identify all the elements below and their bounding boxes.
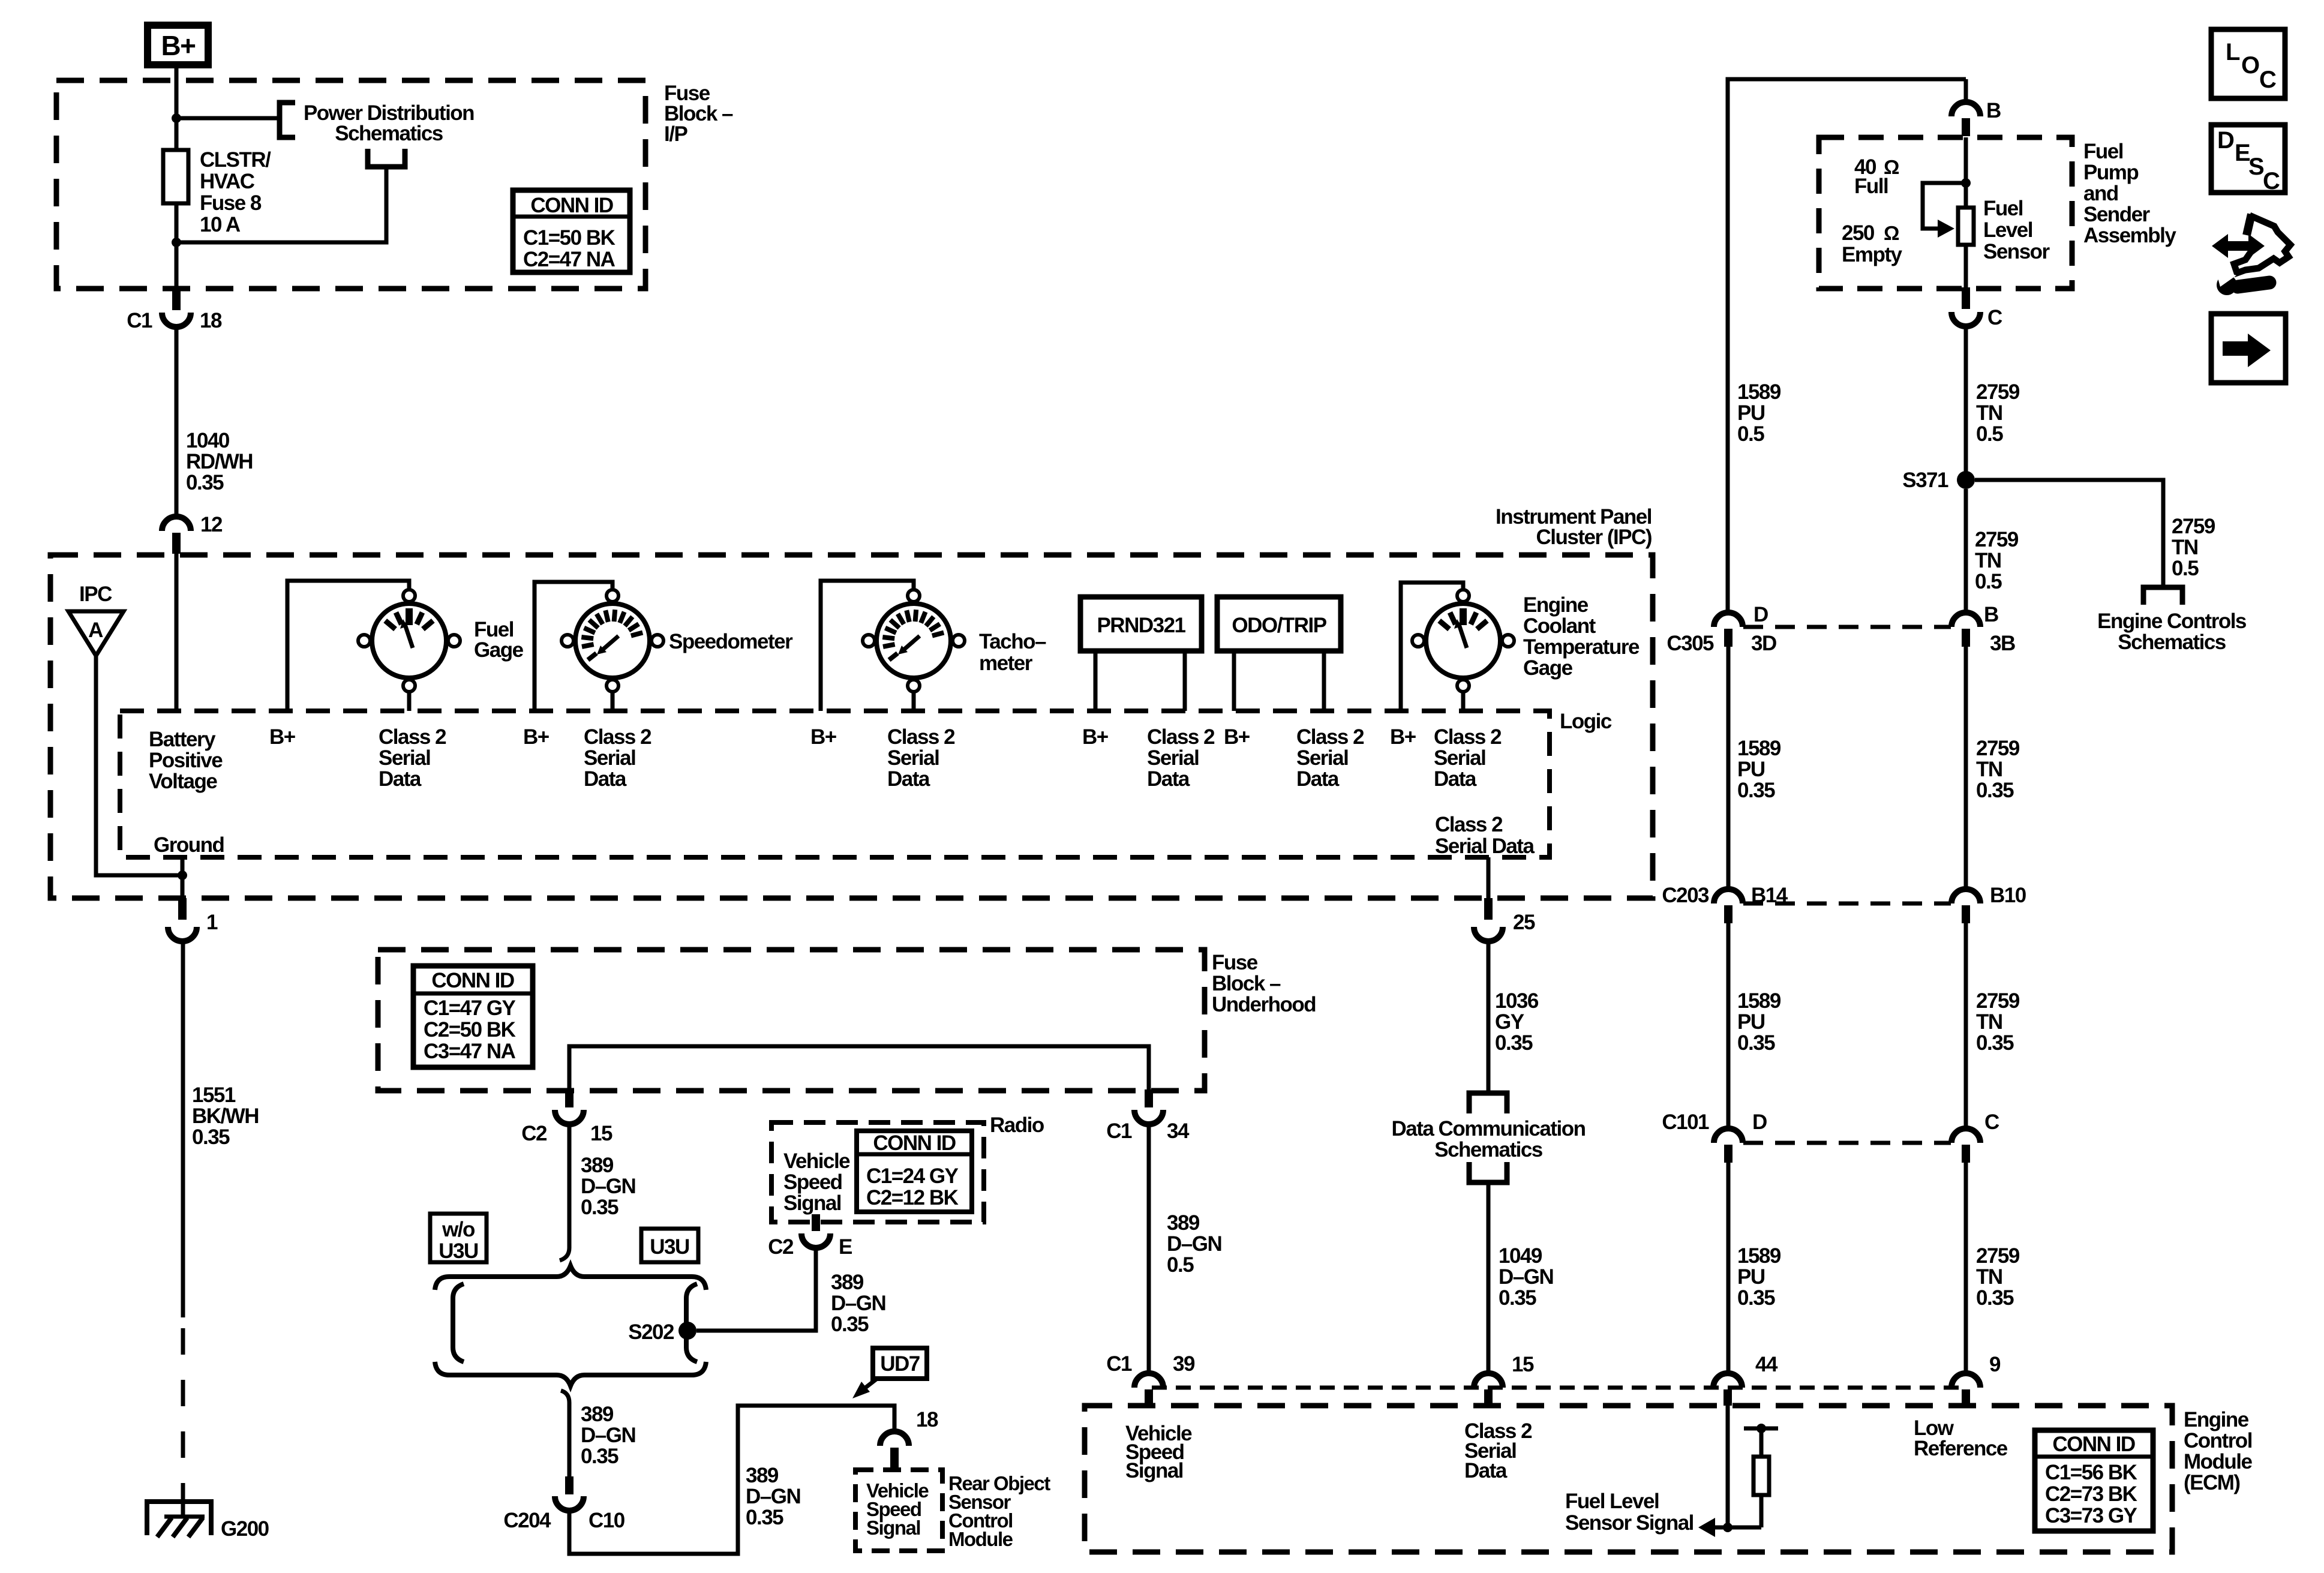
wire 1551 BK/WH to G200 xyxy=(181,941,185,1518)
svg-text:3B: 3B xyxy=(1990,632,2015,655)
wire tap to power distribution bracket xyxy=(176,116,280,121)
wire speedometer class 2 serial data xyxy=(611,692,615,711)
option box U3U xyxy=(641,1229,698,1262)
fuse F8 CLSTR/HVAC 10A xyxy=(163,150,188,203)
svg-text:25: 25 xyxy=(1513,911,1535,934)
svg-text:I/P: I/P xyxy=(664,122,687,146)
svg-text:GY: GY xyxy=(1495,1010,1524,1034)
svg-text:Fuse: Fuse xyxy=(1212,951,1258,974)
wire ground exit xyxy=(181,857,185,900)
svg-text:Engine Controls: Engine Controls xyxy=(2097,610,2247,633)
svg-text:Positive: Positive xyxy=(149,749,223,772)
wire 1589 PU harness top xyxy=(1728,79,1966,613)
fuel gage xyxy=(358,590,460,692)
wire speedometer B+ xyxy=(535,582,612,711)
svg-text:Underhood: Underhood xyxy=(1212,993,1316,1016)
svg-text:15: 15 xyxy=(590,1122,612,1145)
svg-text:S202: S202 xyxy=(628,1320,674,1344)
svg-text:C305: C305 xyxy=(1667,632,1714,655)
svg-text:0.35: 0.35 xyxy=(1495,1031,1533,1055)
connector C1 pin 18 fuse block xyxy=(162,289,191,327)
svg-text:0.35: 0.35 xyxy=(1976,1286,2014,1310)
connector dotted row ECM xyxy=(1152,1386,1966,1390)
svg-text:Fuel: Fuel xyxy=(1983,197,2023,220)
svg-text:1589: 1589 xyxy=(1737,380,1781,404)
label 1589 PU 0.35 (c) xyxy=(1737,1244,1781,1310)
svg-text:D: D xyxy=(1752,1110,1767,1134)
svg-text:Full: Full xyxy=(1854,175,1888,198)
svg-text:2759: 2759 xyxy=(1975,528,2019,551)
wire branch to engine controls xyxy=(1975,480,2163,587)
label Class 2 Serial Data speedometer xyxy=(584,725,651,791)
fuel level sensor resistor xyxy=(1958,208,1974,245)
svg-text:Coolant: Coolant xyxy=(1523,614,1596,638)
svg-text:2759: 2759 xyxy=(2172,515,2215,538)
svg-text:Serial: Serial xyxy=(887,746,939,770)
svg-text:2759: 2759 xyxy=(1976,380,2020,404)
wire underhood bus xyxy=(569,1046,1149,1091)
label 2759 TN 0.35 (c) xyxy=(1976,1244,2020,1310)
svg-text:1036: 1036 xyxy=(1495,989,1539,1013)
label 1049 D-GN 0.35 xyxy=(1499,1244,1553,1310)
svg-text:Sensor Signal: Sensor Signal xyxy=(1565,1511,1694,1535)
svg-text:34: 34 xyxy=(1167,1119,1190,1143)
label fuse CLSTR/HVAC Fuse 8 10 A xyxy=(200,148,271,236)
ground G200 xyxy=(147,1502,211,1537)
svg-text:B+: B+ xyxy=(810,725,837,749)
label Fuse Block - Underhood xyxy=(1212,951,1316,1016)
svg-text:w/o: w/o xyxy=(442,1218,475,1241)
label 250 ohm Empty xyxy=(1842,221,1903,266)
junction node fuse input xyxy=(172,238,181,247)
connector C204 pin C10 xyxy=(555,1476,584,1511)
svg-text:C10: C10 xyxy=(588,1509,625,1532)
connector C1 pin 12 IPC xyxy=(162,517,191,554)
wire end hook upper xyxy=(560,1248,569,1260)
wire end hook lower xyxy=(561,1391,569,1403)
label 1589 PU 0.35 (b) xyxy=(1737,989,1781,1055)
internal supply bar xyxy=(1744,1427,1778,1431)
svg-text:12: 12 xyxy=(200,513,223,536)
label 1589 PU 0.35 (a) xyxy=(1737,737,1781,802)
svg-text:B: B xyxy=(1986,99,2001,122)
wire ECT gage class 2 serial data xyxy=(1461,692,1466,711)
connector C2 pin 44 ECM xyxy=(1713,1373,1742,1406)
svg-text:Signal: Signal xyxy=(866,1517,920,1539)
svg-text:Class 2: Class 2 xyxy=(379,725,446,749)
svg-text:Gage: Gage xyxy=(474,638,524,662)
svg-text:0.5: 0.5 xyxy=(1976,422,2003,446)
label Low Reference xyxy=(1914,1416,2008,1460)
svg-text:Battery: Battery xyxy=(149,728,216,751)
svg-text:C203: C203 xyxy=(1662,884,1709,907)
svg-text:Control: Control xyxy=(2184,1429,2252,1452)
svg-text:0.5: 0.5 xyxy=(1737,422,1764,446)
svg-text:Schematics: Schematics xyxy=(1434,1138,1543,1161)
pullup resistor ECM xyxy=(1753,1457,1769,1495)
svg-text:TN: TN xyxy=(1975,549,2001,572)
svg-text:Fuel Level: Fuel Level xyxy=(1565,1490,1659,1513)
wire B+ to fuse to C1-18 xyxy=(175,68,179,289)
wire pullup to resistor xyxy=(1759,1428,1764,1457)
wire 1049 D-GN xyxy=(1487,1182,1491,1373)
svg-text:C2=12 BK: C2=12 BK xyxy=(866,1186,959,1209)
connector C101 pin D xyxy=(1714,1128,1743,1163)
connector pin 18 rear object xyxy=(880,1431,909,1469)
svg-text:Voltage: Voltage xyxy=(149,770,217,793)
svg-text:Data Communication: Data Communication xyxy=(1391,1117,1585,1140)
label Class 2 Serial Data fuel xyxy=(379,725,446,791)
connector C101 pin C xyxy=(1951,1128,1980,1163)
svg-text:UD7: UD7 xyxy=(880,1352,920,1376)
label 389 D-GN 0.35 (b) xyxy=(581,1403,635,1468)
wire 2759 TN to S371 xyxy=(1964,326,1968,474)
svg-text:Class 2: Class 2 xyxy=(1435,813,1503,836)
wire 2759 TN segment 2 xyxy=(1964,647,1968,889)
svg-text:TN: TN xyxy=(1976,1265,2002,1289)
wire 2759 TN segment 4 xyxy=(1964,1163,1968,1373)
svg-text:B: B xyxy=(1984,603,1998,626)
svg-text:(ECM): (ECM) xyxy=(2184,1471,2240,1494)
svg-text:CLSTR/: CLSTR/ xyxy=(200,148,271,172)
svg-text:0.35: 0.35 xyxy=(192,1125,230,1149)
svg-text:D: D xyxy=(1753,603,1768,626)
option box w/o U3U xyxy=(430,1214,487,1263)
wire ODO/TRIP B+ leg xyxy=(1232,651,1236,711)
wire fuel level sensor signal arrow xyxy=(1698,1518,1761,1537)
junction node power distribution tap xyxy=(172,113,181,123)
svg-text:Module: Module xyxy=(948,1528,1013,1550)
svg-text:389: 389 xyxy=(831,1271,864,1294)
label Class 2 Serial Data tachometer xyxy=(887,725,955,791)
svg-text:39: 39 xyxy=(1173,1352,1195,1376)
label Vehicle Speed Signal rear object xyxy=(866,1479,929,1539)
CONN ID table underhood xyxy=(413,966,533,1067)
svg-text:Logic: Logic xyxy=(1560,710,1612,733)
label 2759 TN 0.5 (branch) xyxy=(2172,515,2215,580)
svg-text:Engine: Engine xyxy=(2184,1408,2249,1431)
label Class 2 Serial Data ECT xyxy=(1434,725,1502,791)
svg-text:C1: C1 xyxy=(1106,1119,1132,1143)
svg-text:Data: Data xyxy=(379,767,422,791)
tachometer xyxy=(863,590,965,692)
svg-text:C2=50 BK: C2=50 BK xyxy=(424,1018,516,1041)
svg-text:Data: Data xyxy=(887,767,930,791)
label Fuel Pump and Sender Assembly xyxy=(2083,140,2176,247)
wire battery positive into logic xyxy=(175,553,179,711)
svg-text:CONN ID: CONN ID xyxy=(431,969,514,992)
junction node fuel level sensor signal xyxy=(1723,1523,1733,1532)
svg-text:D–GN: D–GN xyxy=(581,1175,635,1198)
label 2759 TN 0.35 (a) xyxy=(1976,737,2020,802)
svg-text:C2: C2 xyxy=(521,1122,547,1145)
svg-text:Gage: Gage xyxy=(1523,656,1573,680)
svg-text:Reference: Reference xyxy=(1914,1437,2008,1460)
label Engine Control Module (ECM) xyxy=(2184,1408,2253,1494)
svg-text:A: A xyxy=(88,619,103,642)
rear object sensor control module enclosure xyxy=(855,1470,942,1551)
label Class 2 Serial Data PRND321 xyxy=(1147,725,1215,791)
svg-text:2759: 2759 xyxy=(1976,737,2020,760)
connector B fuel pump xyxy=(1951,102,1980,136)
label 1036 GY 0.35 xyxy=(1495,989,1539,1055)
svg-text:Assembly: Assembly xyxy=(2083,224,2176,247)
svg-text:0.35: 0.35 xyxy=(1737,779,1775,802)
svg-text:PU: PU xyxy=(1737,1265,1765,1289)
svg-text:CONN ID: CONN ID xyxy=(530,194,613,217)
svg-text:Class 2: Class 2 xyxy=(1296,725,1364,749)
junction node ground / A xyxy=(178,870,187,880)
fuel pump and sender assembly enclosure xyxy=(1819,137,2072,289)
svg-text:C3=73 GY: C3=73 GY xyxy=(2045,1504,2137,1527)
connector C203 pin B14 xyxy=(1714,889,1743,923)
svg-text:Class 2: Class 2 xyxy=(887,725,955,749)
connector pin 1 IPC xyxy=(168,898,197,941)
label Class 2 Serial Data output xyxy=(1435,813,1535,858)
wire tachometer B+ xyxy=(821,581,914,711)
svg-text:389: 389 xyxy=(746,1464,779,1487)
radio enclosure xyxy=(771,1122,984,1222)
svg-text:PU: PU xyxy=(1737,1010,1765,1034)
svg-text:0.5: 0.5 xyxy=(1975,570,2002,593)
speedometer xyxy=(562,590,663,692)
label 40 ohm Full xyxy=(1854,155,1899,198)
alternate path U3U xyxy=(686,1284,697,1362)
svg-text:389: 389 xyxy=(581,1403,614,1426)
svg-text:TN: TN xyxy=(2172,536,2198,559)
wire 1036 GY xyxy=(1487,941,1491,1093)
connector dash C305 xyxy=(1743,625,1951,629)
svg-text:Serial: Serial xyxy=(1296,746,1348,770)
junction node pullup top xyxy=(1756,1424,1766,1433)
svg-text:18: 18 xyxy=(200,309,222,332)
wire 389 D-GN to C204 xyxy=(568,1403,572,1478)
CONN ID table radio xyxy=(857,1131,972,1212)
connector C1 pin 39 ECM xyxy=(1134,1373,1163,1406)
svg-text:Empty: Empty xyxy=(1842,243,1903,266)
connector C3 pin 9 ECM xyxy=(1951,1373,1980,1406)
svg-text:2759: 2759 xyxy=(1976,1244,2020,1268)
wire 389 D-GN radio feed xyxy=(568,1124,572,1248)
label 389 D-GN 0.5 xyxy=(1167,1211,1221,1277)
svg-text:CONN ID: CONN ID xyxy=(2052,1433,2135,1456)
label Fuel Level Sensor xyxy=(1983,197,2050,263)
label Vehicle Speed Signal radio xyxy=(783,1149,850,1215)
svg-text:L: L xyxy=(2226,39,2240,65)
svg-text:C: C xyxy=(2263,168,2280,194)
label Class 2 Serial Data ECM xyxy=(1464,1419,1532,1482)
legend arrow box xyxy=(2211,314,2286,383)
ODO/TRIP display xyxy=(1217,597,1341,651)
svg-text:15: 15 xyxy=(1512,1353,1534,1376)
connector dash C101 xyxy=(1743,1141,1951,1145)
wire fuel gage class 2 serial data xyxy=(407,692,412,711)
svg-text:Serial: Serial xyxy=(1147,746,1199,770)
svg-text:D–GN: D–GN xyxy=(581,1424,635,1447)
wire PRND321 data leg xyxy=(1183,651,1187,711)
connector C203 pin 25 xyxy=(1474,898,1503,941)
wire 2759 TN top xyxy=(1964,79,1968,102)
svg-text:Serial: Serial xyxy=(584,746,635,770)
off-page bracket data communication (in) xyxy=(1469,1093,1507,1113)
power terminal B+ xyxy=(148,25,208,65)
label 1040 RD/WH 0.35 xyxy=(186,429,253,494)
label Battery Positive Voltage xyxy=(149,728,223,793)
svg-text:BK/WH: BK/WH xyxy=(192,1104,259,1128)
svg-text:C: C xyxy=(2259,67,2276,93)
svg-text:TN: TN xyxy=(1976,758,2002,781)
wire 389 D-GN to rear object module xyxy=(569,1406,894,1554)
connector C2 pin E radio xyxy=(801,1214,830,1248)
svg-text:D–GN: D–GN xyxy=(831,1292,885,1315)
svg-text:S: S xyxy=(2248,154,2264,180)
label Instrument Panel Cluster (IPC) xyxy=(1496,505,1652,549)
connector C fuel pump xyxy=(1951,287,1980,326)
svg-text:0.35: 0.35 xyxy=(1737,1286,1775,1310)
svg-text:Block –: Block – xyxy=(1212,972,1281,995)
svg-text:0.35: 0.35 xyxy=(1499,1286,1536,1310)
svg-text:0.35: 0.35 xyxy=(1976,1031,2014,1055)
svg-text:0.5: 0.5 xyxy=(1167,1253,1194,1277)
connector C2 pin 15 underhood xyxy=(555,1089,584,1124)
svg-text:1589: 1589 xyxy=(1737,737,1781,760)
option brace top xyxy=(435,1266,706,1290)
legend DESC box xyxy=(2211,125,2285,194)
wire 1040 RD/WH xyxy=(175,327,179,517)
svg-text:B+: B+ xyxy=(1082,725,1109,749)
alternate path w/o U3U xyxy=(453,1284,464,1362)
svg-text:Data: Data xyxy=(1434,767,1477,791)
svg-text:G200: G200 xyxy=(221,1517,269,1541)
IPC logic boundary xyxy=(120,711,1550,857)
connector C1 pin 34 underhood xyxy=(1134,1089,1163,1124)
svg-text:Signal: Signal xyxy=(1125,1459,1183,1482)
svg-text:18: 18 xyxy=(916,1408,938,1431)
UD7 arrow xyxy=(852,1379,877,1398)
svg-text:U3U: U3U xyxy=(650,1235,689,1259)
svg-text:C2: C2 xyxy=(768,1235,794,1259)
label Rear Object Sensor Control Module xyxy=(948,1472,1050,1550)
wire power distribution return to bus xyxy=(176,167,386,242)
wire 1589 PU segment 3 xyxy=(1727,923,1731,1128)
junction node sensor wiper xyxy=(1961,178,1971,188)
svg-text:O: O xyxy=(2241,52,2259,79)
svg-text:Ground: Ground xyxy=(154,833,224,857)
svg-text:Serial: Serial xyxy=(379,746,430,770)
wire IPC ground path A xyxy=(96,656,182,875)
svg-text:C3=47 NA: C3=47 NA xyxy=(424,1040,516,1063)
label Fuel Level Sensor Signal xyxy=(1565,1490,1694,1535)
svg-text:U3U: U3U xyxy=(439,1239,478,1263)
label 2759 TN 0.5 (b) xyxy=(1975,528,2019,593)
svg-text:Serial: Serial xyxy=(1434,746,1485,770)
svg-text:1049: 1049 xyxy=(1499,1244,1542,1268)
svg-text:B+: B+ xyxy=(161,30,195,61)
PRND321 display xyxy=(1080,597,1202,651)
svg-text:0.5: 0.5 xyxy=(2172,557,2199,580)
wire tachometer class 2 serial data xyxy=(912,692,916,711)
svg-text:1589: 1589 xyxy=(1737,989,1781,1013)
connector C203 pin B10 xyxy=(1951,889,1980,923)
svg-text:meter: meter xyxy=(979,652,1033,675)
svg-text:3D: 3D xyxy=(1751,632,1776,655)
label 389 D-GN 0.35 (c) xyxy=(746,1464,800,1529)
svg-text:Schematics: Schematics xyxy=(335,122,443,145)
label Vehicle Speed Signal ECM xyxy=(1125,1422,1192,1482)
svg-text:44: 44 xyxy=(1755,1353,1778,1376)
splice S202 xyxy=(678,1322,696,1340)
wire ECT gage B+ xyxy=(1401,583,1463,711)
option brace bottom xyxy=(435,1362,706,1386)
svg-text:HVAC: HVAC xyxy=(200,170,255,193)
wire resistor to signal node xyxy=(1759,1495,1764,1527)
splice S371 xyxy=(1957,471,1975,489)
svg-text:Fuse 8: Fuse 8 xyxy=(200,191,262,215)
svg-text:C1: C1 xyxy=(1106,1352,1132,1376)
legend LOC box xyxy=(2211,29,2285,98)
svg-text:Cluster (IPC): Cluster (IPC) xyxy=(1536,526,1652,549)
svg-text:TN: TN xyxy=(1976,401,2002,425)
svg-text:Signal: Signal xyxy=(783,1191,841,1215)
svg-text:C2=73 BK: C2=73 BK xyxy=(2045,1482,2137,1506)
svg-text:B+: B+ xyxy=(1390,725,1416,749)
wire fuel level sensor internal xyxy=(1964,137,1968,289)
svg-text:Speedometer: Speedometer xyxy=(669,630,793,653)
svg-text:Sender: Sender xyxy=(2083,203,2151,226)
CONN ID table fuse block I/P xyxy=(513,190,630,272)
wire fuel level sensor signal internal xyxy=(1726,1406,1730,1527)
svg-text:Data: Data xyxy=(1147,767,1190,791)
label Engine Controls Schematics xyxy=(2097,610,2247,654)
svg-text:Class 2: Class 2 xyxy=(1147,725,1215,749)
label Data Communication Schematics xyxy=(1391,1117,1585,1161)
svg-text:389: 389 xyxy=(1167,1211,1200,1235)
connector C2 pin 15 ECM xyxy=(1474,1373,1503,1406)
svg-text:Pump: Pump xyxy=(2083,161,2138,184)
svg-text:CONN ID: CONN ID xyxy=(873,1131,956,1155)
legend service icon xyxy=(2212,214,2290,295)
wire 1589 PU segment 4 xyxy=(1727,1163,1731,1373)
svg-text:Module: Module xyxy=(2184,1450,2253,1473)
svg-text:0.35: 0.35 xyxy=(1976,779,2014,802)
wire class 2 serial data to pin 25 xyxy=(1487,857,1491,900)
wire 2759 TN to 3B xyxy=(1964,489,1968,613)
svg-text:IPC: IPC xyxy=(79,583,112,606)
svg-text:B10: B10 xyxy=(1990,884,2026,907)
label 1551 BK/WH 0.35 xyxy=(192,1083,259,1149)
off-page bracket data communication (out) xyxy=(1469,1162,1507,1182)
svg-text:9: 9 xyxy=(1989,1353,2001,1376)
svg-text:Speed: Speed xyxy=(783,1170,842,1194)
off-page bracket Power Distribution (in) xyxy=(280,103,295,137)
svg-text:C: C xyxy=(1987,306,2002,329)
svg-text:C204: C204 xyxy=(503,1509,551,1532)
svg-text:Engine: Engine xyxy=(1523,593,1589,617)
off-page bracket engine controls xyxy=(2143,587,2182,605)
svg-text:Data: Data xyxy=(584,767,627,791)
svg-text:PU: PU xyxy=(1737,401,1765,425)
label Fuse Block - I/P xyxy=(664,82,733,146)
svg-text:0.35: 0.35 xyxy=(1737,1031,1775,1055)
label Engine Coolant Temperature Gage xyxy=(1523,593,1640,680)
svg-text:C101: C101 xyxy=(1662,1110,1709,1134)
svg-text:E: E xyxy=(839,1235,852,1259)
svg-text:Class 2: Class 2 xyxy=(1434,725,1502,749)
svg-text:B+: B+ xyxy=(269,725,296,749)
instrument panel cluster enclosure xyxy=(50,555,1653,898)
svg-text:ODO/TRIP: ODO/TRIP xyxy=(1232,614,1326,637)
wire 389 D-GN radio to S202 xyxy=(696,1248,816,1331)
